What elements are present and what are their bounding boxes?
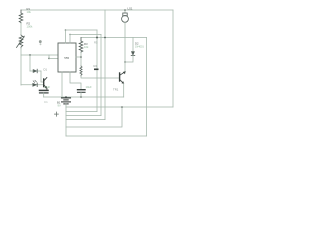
wire x146.5 vertical to supply rail: [146, 38, 148, 137]
wire C1 to ground rail: [80, 92, 82, 97]
resistor R3: [79, 38, 83, 53]
svg-text:9V: 9V: [58, 104, 61, 108]
wire riser x30 down to diode D2: [29, 55, 31, 71]
wire ground rail y97: [44, 96, 124, 98]
wire top rail 0V: [21, 9, 173, 11]
wire IC top stub pin to y34.5: [70, 35, 101, 44]
wire right side down to bottom rail: [172, 10, 174, 107]
wire battery negative down x66: [65, 107, 67, 136]
node junction dot x30 y55: [29, 54, 31, 56]
capacitor C2 plates: [40, 90, 49, 93]
svg-text:100k: 100k: [27, 24, 33, 28]
wire trigger line y55 to IC: [21, 54, 58, 56]
wire y71 diode branch: [30, 70, 41, 72]
svg-text:R4: R4: [94, 64, 98, 68]
wire R1 to VR1: [20, 23, 22, 35]
svg-text:LS1: LS1: [128, 6, 133, 10]
wire y136 outer return: [66, 135, 147, 137]
svg-text:10k: 10k: [84, 45, 89, 49]
wire x97 vertical: [96, 30, 98, 112]
node dot buzzer top rail: [124, 9, 126, 11]
LED D3: [33, 80, 37, 86]
wire y119.5 return: [66, 119, 105, 121]
battery B1: [62, 98, 71, 104]
wire y127 return to x122: [66, 107, 122, 127]
variable resistor VR1: [17, 35, 25, 48]
node dot stub corner x65.5 y29.5: [65, 29, 67, 31]
wire battery bottom to rail y107: [65, 104, 67, 107]
diode D2: [33, 69, 37, 73]
node dot x81 y57: [80, 56, 82, 58]
node dot C1 bottom: [80, 96, 82, 98]
wire threshold stub to IC pin: [49, 55, 58, 59]
wire R4 to Q2 base rail y78.5: [81, 76, 120, 78]
svg-text:10uF: 10uF: [86, 85, 92, 89]
node dot x125 y62: [124, 61, 126, 63]
svg-text:555: 555: [64, 56, 69, 60]
svg-text:47uF: 47uF: [44, 85, 50, 89]
stray mark near VR1: [39, 40, 42, 43]
svg-text:TR1: TR1: [113, 88, 119, 92]
svg-text:10k: 10k: [27, 10, 32, 14]
node dot battery top: [65, 96, 67, 98]
resistor R4 small: [80, 66, 82, 76]
wire Q2 emitter down to ground rail: [123, 84, 125, 98]
buzzer LS1: [122, 10, 129, 62]
IC U1 555 rectangle: [58, 43, 76, 72]
label R4 value dark bar: [94, 69, 99, 71]
wire IC bottom stub pin to C1 top: [70, 72, 81, 90]
capacitor C1 plates: [78, 90, 86, 93]
wire VR1 down to LED branch: [20, 48, 22, 85]
wire x125 down to Q2 collector: [124, 62, 126, 72]
wire IC bottom stub pin1 to ground rail: [61, 72, 63, 97]
wire supply rail y37.5 to diode D4: [81, 37, 147, 39]
wire bottom rail: [66, 106, 173, 108]
transistor Q2: [120, 72, 126, 84]
diode D4 flyback: [125, 38, 135, 63]
node dot x105 y37.5: [104, 37, 106, 39]
wire y115.5 return: [66, 115, 101, 117]
resistor R1: [19, 10, 23, 23]
svg-text:D1: D1: [44, 67, 48, 71]
wire x101 vertical: [100, 35, 102, 116]
wire base line y84.8: [21, 84, 44, 86]
svg-text:1N4001: 1N4001: [135, 45, 144, 48]
wire x105 from top rail down: [104, 10, 106, 120]
node dot x97 y37.5: [96, 37, 98, 39]
wire corner down to Q1: [41, 71, 44, 82]
wire IC top stub pin to y30: [66, 30, 98, 43]
transistor Q1: [44, 78, 47, 91]
wire R3 bottom junction to IC pin7: [80, 53, 82, 67]
svg-text:C1: C1: [44, 100, 48, 104]
wire pin7 horizontal: [76, 56, 81, 58]
node junction dot x49 y55: [48, 58, 50, 60]
wire C2 to ground rail: [43, 93, 45, 97]
svg-text:R5: R5: [94, 41, 98, 45]
node dot stub corner x70 y34.5: [69, 34, 70, 35]
node dot x122 y107: [121, 106, 123, 108]
node plus mark near battery returns: [54, 112, 58, 116]
wire y111.5 return: [66, 111, 97, 113]
